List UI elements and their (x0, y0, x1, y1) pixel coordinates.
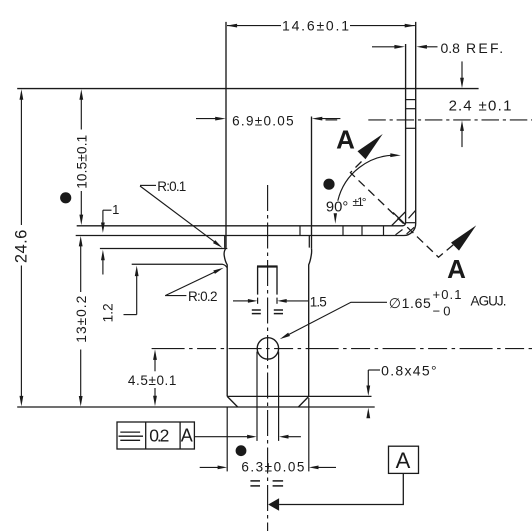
bend cross mark at inner corner (392, 212, 405, 225)
band bottom edge, outer corner radius, right wall outer edge (76, 22, 416, 236)
section arrow A upper (358, 134, 383, 159)
center line horizontal through hole (152, 348, 532, 350)
arrowhead 13 top (79, 236, 83, 247)
serration rung on right wall 3 (406, 127, 416, 129)
arrowhead 1.5 right (277, 299, 287, 303)
arrowhead 0.8x45 down (366, 386, 370, 397)
slot left extension segment (257, 298, 259, 304)
svg-text:90°: 90° (326, 199, 348, 215)
step extension line for dim 1 (100, 248, 227, 250)
hole circle (257, 338, 278, 359)
arrowhead 13 bottom (79, 396, 83, 407)
serration rung above corner on right wall (406, 222, 416, 224)
svg-text:R:0.1: R:0.1 (157, 179, 186, 194)
svg-text:6.9±0.05: 6.9±0.05 (232, 113, 294, 128)
leader hole callout (289, 302, 387, 334)
section arrow A lower (451, 225, 476, 250)
arrowhead 24.6 top (20, 89, 24, 100)
slanted serration rung near corner (396, 230, 403, 235)
svg-text:R:0.2: R:0.2 (188, 289, 218, 304)
svg-text:1.5: 1.5 (310, 294, 327, 309)
svg-text:6.3±0.05: 6.3±0.05 (241, 459, 304, 474)
svg-text:13±0.2: 13±0.2 (74, 296, 89, 343)
arrowhead 4.5 down (153, 396, 157, 407)
right wall inner edge with inner corner radius (403, 44, 406, 226)
leader R:0.2 (165, 272, 215, 296)
blade left edge extension below part (226, 407, 228, 471)
arrowhead 0.8 right-pointing-left (416, 45, 427, 49)
part bottom right chamfer (298, 396, 308, 407)
step extension line for dim 1.2 with end curve (132, 264, 227, 267)
slanted serration rung at corner (407, 227, 415, 234)
feature control frame (117, 422, 194, 449)
dimension 24.6 dim line (20, 99, 22, 225)
part top edge with extension to left and right (17, 88, 478, 90)
svg-text:∅1.65: ∅1.65 (389, 295, 431, 311)
arrowhead 1 up (101, 250, 105, 260)
dimension 1.2 stem and bracket (136, 275, 138, 314)
reference dot left (60, 192, 71, 203)
section line solid dash across inner corner (393, 213, 405, 224)
hole right extension line below (278, 352, 280, 441)
arrowhead hole leader (280, 333, 290, 340)
dimension 6.3 stems (200, 466, 219, 468)
svg-text:A: A (336, 125, 355, 155)
arrowhead 6.9 left (215, 117, 226, 121)
section line A-A dashed (350, 162, 453, 258)
svg-text:0.2: 0.2 (149, 426, 169, 446)
arrowhead 0.8x45 up (366, 408, 370, 419)
arrowhead 24.6 bottom (20, 396, 24, 407)
slot right edge (276, 267, 278, 295)
arrowhead 10.5 top (79, 89, 83, 100)
svg-text:2.4±0.1: 2.4±0.1 (449, 97, 512, 114)
reference dot bottom (236, 445, 247, 456)
blade right edge extension below part (308, 398, 310, 471)
arrowhead 1.2 up (135, 266, 139, 277)
svg-text:1: 1 (112, 202, 119, 217)
dimension 0.8x45 bracket (367, 370, 369, 386)
arrowhead 1.5 left (248, 299, 258, 303)
arrowhead 14.6 left (227, 24, 238, 28)
chamfer top line with extension right (227, 395, 371, 397)
equality marks at slot (252, 310, 283, 314)
90 degree dimension arc (338, 155, 397, 201)
svg-text:0.8x45°: 0.8x45° (381, 363, 437, 379)
arrowhead 2.4 bottom (460, 120, 464, 130)
svg-text:A: A (181, 426, 193, 446)
svg-text:1.2: 1.2 (100, 303, 115, 322)
arrowhead centering right (279, 435, 289, 439)
svg-text:+0.1: +0.1 (433, 287, 462, 302)
center line horizontal upper right lone dash (326, 119, 338, 121)
arrowhead R:0.2 (213, 268, 223, 274)
dimension 1 bracket (103, 209, 112, 211)
center line vertical (267, 185, 269, 531)
part shoulder top line / band top edge with extension left (77, 225, 403, 227)
part left step curve and blade left edge (224, 248, 227, 397)
part right shoulder edge / extension line for 6.9 dim (311, 117, 313, 249)
arrowhead 2.4 top (460, 78, 464, 89)
hole left extension line below (256, 352, 258, 441)
leader R:0.1 (140, 186, 216, 243)
svg-text:−0: −0 (433, 304, 451, 319)
svg-text:A: A (396, 448, 411, 473)
inner edge short line left shoulder (224, 236, 226, 248)
svg-text:±1°: ±1° (353, 195, 367, 209)
arrowhead 14.6 right (405, 24, 416, 28)
serration rung on right wall 1 (406, 99, 416, 101)
dimension 2.4 stems (461, 61, 463, 78)
dimension 10.5 dim line (80, 99, 82, 130)
svg-text:24.6: 24.6 (13, 230, 31, 264)
serration rung on right wall 2 (406, 108, 416, 110)
hole centering arrows stems (194, 436, 247, 438)
arrowhead 1 down (101, 223, 105, 234)
serration rung on bottom band 1 (299, 226, 301, 236)
slot cap (257, 265, 278, 267)
slot left edge (257, 267, 259, 295)
datum target leader triangle (268, 498, 279, 511)
svg-text:4.5±0.1: 4.5±0.1 (128, 373, 176, 388)
arrowhead 0.8 left-pointing-right (394, 45, 405, 49)
arrowhead 90deg down (334, 213, 337, 224)
arrowhead 6.9 right (312, 117, 323, 121)
dimension 6.9 stems (196, 118, 217, 120)
arrowhead 6.3 right (309, 466, 319, 470)
dimension 0.8 REF stems (372, 46, 396, 48)
serration rung on bottom band 2 (342, 226, 344, 236)
dimension 13 dim line (80, 245, 82, 292)
svg-text:AGUJ.: AGUJ. (471, 293, 507, 308)
arrowhead 10.5 bottom (79, 215, 83, 226)
arrowhead 4.5 up (153, 349, 157, 360)
equality marks below 6.3 (250, 481, 283, 486)
svg-text:14.6±0.1: 14.6±0.1 (282, 17, 349, 33)
center line horizontal upper right (368, 119, 532, 121)
slanted serration rung on right wall near corner (409, 210, 416, 218)
reference dot upper right (323, 179, 334, 190)
datum leader line (279, 473, 403, 504)
dimension 4.5 stems (154, 360, 156, 372)
arrowhead R:0.1 (213, 240, 223, 248)
part right step curve and blade right edge (309, 248, 312, 396)
svg-text:0.8REF.: 0.8REF. (441, 40, 504, 56)
dimension 14.6±0.1 dim line (227, 25, 281, 27)
part bottom left chamfer (227, 396, 238, 407)
arrowhead 6.3 left (218, 466, 228, 470)
arrowhead 90deg arc end (390, 153, 401, 157)
slot right extension segment (276, 298, 278, 304)
dimension 1.5 stems (233, 300, 248, 302)
part left shoulder edge / extension line for 14.6 and 6.9 dims (225, 22, 227, 248)
arrowhead centering left (247, 435, 257, 439)
serration rung on bottom band 3 (361, 226, 363, 236)
part bottom edge with extensions (17, 406, 375, 408)
datum box (389, 446, 419, 473)
serration rung on bottom band 4 (383, 226, 385, 236)
inner edge short line right shoulder (308, 236, 310, 248)
dimension 1 lower stem (102, 260, 104, 275)
svg-text:A: A (447, 254, 466, 284)
svg-text:10.5±0.1: 10.5±0.1 (74, 135, 89, 189)
